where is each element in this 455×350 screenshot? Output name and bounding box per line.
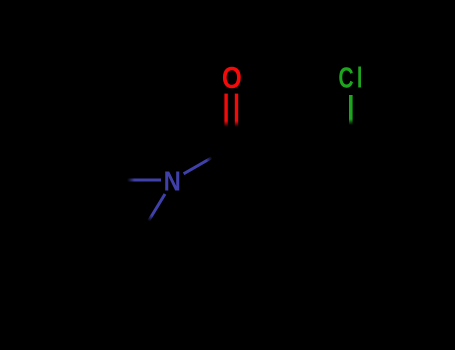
svg-text:N: N [164, 165, 181, 197]
svg-text:O: O [222, 61, 242, 94]
double bond C=O line 1 [224, 94, 227, 127]
double bond C=O line 2 [235, 94, 238, 127]
svg-text:l: l [357, 63, 363, 94]
bond N-C ring left [127, 179, 161, 182]
bond N-C ring lower [149, 194, 166, 221]
bond Cl-C [349, 95, 353, 125]
bond N-C(=O) [184, 158, 212, 174]
svg-text:C: C [338, 63, 353, 95]
